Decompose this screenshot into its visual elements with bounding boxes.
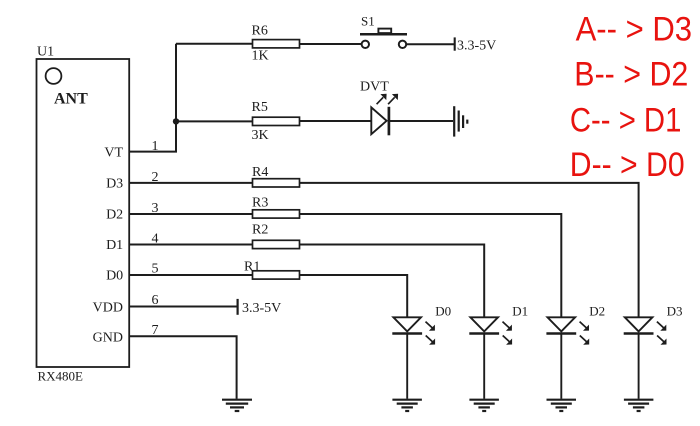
svg-text:1K: 1K [252, 48, 269, 63]
svg-text:D3: D3 [667, 304, 683, 319]
svg-text:R1: R1 [244, 260, 260, 275]
svg-text:VDD: VDD [93, 301, 123, 316]
svg-text:C-- > D1: C-- > D1 [570, 102, 682, 140]
svg-text:R3: R3 [252, 195, 268, 210]
svg-text:U1: U1 [37, 45, 54, 60]
svg-text:5: 5 [152, 262, 159, 277]
svg-text:RX480E: RX480E [38, 368, 84, 383]
svg-text:3K: 3K [252, 128, 269, 143]
svg-text:R2: R2 [252, 222, 268, 237]
svg-text:DVT: DVT [360, 80, 389, 95]
svg-text:D3: D3 [106, 177, 123, 192]
svg-text:A-- > D3: A-- > D3 [576, 11, 693, 49]
svg-text:7: 7 [152, 323, 159, 338]
svg-text:D-- > D0: D-- > D0 [570, 146, 685, 184]
svg-text:VT: VT [104, 145, 123, 160]
svg-text:4: 4 [152, 232, 159, 247]
svg-text:D2: D2 [589, 304, 605, 319]
svg-text:S1: S1 [361, 14, 375, 29]
svg-text:R5: R5 [252, 100, 268, 115]
svg-text:GND: GND [93, 330, 123, 345]
svg-text:R6: R6 [252, 24, 268, 39]
svg-text:D0: D0 [106, 269, 123, 284]
svg-text:D0: D0 [435, 304, 451, 319]
svg-text:3.3-5V: 3.3-5V [457, 38, 496, 53]
svg-text:D2: D2 [106, 208, 123, 223]
svg-text:3: 3 [152, 201, 159, 216]
svg-text:3.3-5V: 3.3-5V [242, 301, 281, 316]
svg-text:R4: R4 [252, 165, 268, 180]
svg-text:ANT: ANT [54, 90, 88, 107]
svg-text:1: 1 [152, 139, 159, 154]
svg-text:6: 6 [152, 293, 159, 308]
svg-text:B-- > D2: B-- > D2 [574, 56, 688, 94]
svg-text:2: 2 [152, 170, 159, 185]
svg-text:D1: D1 [512, 304, 528, 319]
svg-text:D1: D1 [106, 238, 123, 253]
